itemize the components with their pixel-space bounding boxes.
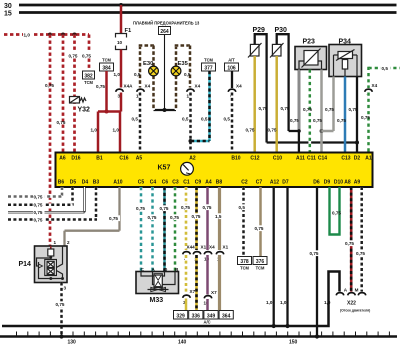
svg-text:A11: A11	[296, 156, 305, 162]
svg-text:Y32: Y32	[78, 107, 91, 114]
connector X4 pin 11	[186, 84, 201, 99]
svg-text:0,75: 0,75	[45, 83, 54, 88]
reference box 376 (TCM)	[253, 257, 267, 271]
node junction on D2 wire	[355, 141, 359, 145]
svg-text:0,5: 0,5	[182, 117, 189, 122]
wire black/white from K57 pin D5 to left	[8, 187, 74, 208]
sensor P23	[295, 39, 327, 70]
svg-text:A2: A2	[189, 156, 196, 162]
odometer module P14	[19, 240, 71, 283]
svg-text:C1: C1	[183, 180, 190, 186]
svg-text:264: 264	[160, 29, 169, 35]
ground bus with riser to connector X22	[2, 272, 340, 327]
svg-text:0,75: 0,75	[160, 206, 169, 211]
svg-text:C5: C5	[138, 180, 145, 186]
svg-text:E35: E35	[178, 61, 189, 67]
node lamp junction	[163, 108, 167, 112]
svg-text:D16: D16	[71, 156, 80, 162]
svg-text:0,75: 0,75	[310, 251, 319, 256]
wire teal/white from K57 pin C4 to M33 pin A	[147, 187, 159, 272]
wire tan from X1-1 into box 364	[218, 255, 221, 311]
svg-text:X4: X4	[145, 84, 151, 89]
svg-text:D9: D9	[324, 180, 331, 186]
wire yellow/black from X1-2 into box 336	[195, 255, 198, 311]
wire black stub from box 106 to connector X4 pin 6	[231, 71, 233, 88]
svg-text:376: 376	[256, 259, 265, 265]
svg-text:X4: X4	[372, 83, 378, 88]
svg-text:1,0: 1,0	[266, 300, 273, 305]
wire red distribution horizontal	[98, 110, 121, 113]
svg-text:A10: A10	[113, 180, 122, 186]
svg-text:0,75: 0,75	[356, 251, 365, 256]
connector X7 pin 3	[183, 289, 196, 305]
svg-text:D6: D6	[313, 180, 320, 186]
wire black from K57 pin D7 to ground bus	[280, 187, 290, 328]
node junction C	[73, 33, 77, 37]
wire yellow stub into box 329	[185, 299, 188, 311]
svg-text:1: 1	[54, 240, 57, 245]
reference box 336	[189, 311, 203, 320]
wire yellow from P30 to K57 pin C10	[268, 56, 277, 153]
svg-text:0,75: 0,75	[361, 115, 370, 120]
K57 bottom pin labels	[58, 180, 361, 186]
connector X7 pin 10	[203, 290, 217, 306]
wire teal/white from K57 pin C5 to M33 pin C	[136, 187, 148, 272]
reference box 382 (TCM)	[83, 71, 95, 85]
connector X4 pin 10	[204, 245, 216, 262]
svg-text:106: 106	[227, 66, 236, 72]
reference box 384 (TCM)	[100, 58, 114, 72]
node red junction at 384 stub	[105, 110, 109, 114]
wire red/white feeder horizontal	[4, 32, 89, 38]
svg-text:384: 384	[102, 66, 111, 72]
wire tan from K57 pin C7 to box 376	[254, 187, 266, 257]
gauge symbol in K57	[181, 162, 194, 175]
svg-text:0,75: 0,75	[181, 205, 190, 210]
svg-text:X7: X7	[190, 289, 196, 294]
svg-text:B1: B1	[96, 156, 103, 162]
wire black return of P30	[281, 45, 299, 131]
svg-text:0,75: 0,75	[136, 206, 145, 211]
reference box 378 (TCM)	[238, 257, 252, 271]
svg-text:D4: D4	[82, 180, 89, 186]
wire grey from P23 to K57 pin C14	[313, 70, 322, 154]
wire red drop to K57 pin B1	[91, 112, 99, 154]
svg-text:0,75: 0,75	[96, 84, 105, 89]
svg-text:C6: C6	[162, 180, 169, 186]
svg-text:E30: E30	[143, 61, 153, 67]
svg-text:D2: D2	[354, 156, 361, 162]
svg-text:ТСМ: ТСМ	[102, 58, 111, 63]
wire violet stub into box 349	[206, 299, 209, 311]
svg-text:30: 30	[4, 3, 12, 10]
connector X1 pin 1	[216, 245, 228, 262]
wire white from K57 pin D4 to left	[8, 187, 85, 215]
svg-text:A4: A4	[205, 180, 212, 186]
svg-text:M: M	[355, 287, 359, 292]
svg-text:336: 336	[192, 313, 201, 319]
svg-text:0,5: 0,5	[382, 66, 389, 71]
wire thin black from box 264 to lamp junction	[164, 35, 166, 111]
svg-text:P14: P14	[19, 261, 32, 268]
svg-text:150: 150	[289, 340, 298, 344]
svg-text:ТСМ: ТСМ	[256, 266, 265, 271]
wire red/white vertical to P14 pin 1	[45, 35, 54, 247]
wire black from P34 to K57 pin D2	[349, 77, 358, 154]
reference box 106 (A/T)	[225, 58, 239, 72]
node ground of P14 wire	[59, 334, 63, 338]
svg-text:1,0: 1,0	[280, 300, 287, 305]
wire yellow from P29 to K57 pin C12	[246, 56, 255, 153]
svg-text:C3: C3	[172, 180, 179, 186]
stepper motor M33	[136, 267, 179, 304]
wire black/white from X4-18 to K57 pin A5	[132, 93, 141, 154]
svg-text:ТСМ: ТСМ	[204, 58, 213, 63]
wire brown/white loop of lamp E35	[175, 46, 192, 111]
wire violet from K57 pin A4 to connector X4	[202, 187, 214, 250]
svg-text:C9: C9	[195, 180, 202, 186]
svg-text:364: 364	[222, 313, 231, 319]
wire dark teal from K57 pin C6 to M33 pin D	[159, 187, 171, 272]
svg-text:3: 3	[64, 286, 67, 291]
svg-text:378: 378	[240, 259, 249, 265]
svg-text:A/C: A/C	[204, 319, 211, 324]
svg-text:0,75: 0,75	[34, 195, 43, 200]
svg-text:1,0: 1,0	[24, 33, 31, 38]
svg-text:B10: B10	[231, 156, 240, 162]
svg-text:0,5: 0,5	[224, 117, 231, 122]
label X22 engine bay	[340, 301, 370, 313]
wire red feed below fuse F1	[114, 50, 122, 88]
wire violet from X4-10 to connector X7 pin 10	[206, 255, 209, 295]
svg-text:130: 130	[68, 340, 77, 344]
wire black/white from K57 pin B3 to left	[8, 187, 97, 223]
svg-text:X4: X4	[209, 245, 215, 250]
svg-text:0,75: 0,75	[303, 107, 312, 112]
svg-text:1,0: 1,0	[91, 128, 98, 133]
svg-text:A8: A8	[344, 180, 351, 186]
svg-text:1,5: 1,5	[215, 214, 222, 219]
svg-text:A1: A1	[365, 156, 372, 162]
wire green/white from X4-7 to K57 pin A1	[361, 93, 370, 154]
sensor P30	[270, 27, 289, 58]
svg-text:X4: X4	[236, 84, 242, 89]
svg-text:D5: D5	[70, 180, 77, 186]
wire red/black from K57 pin A8 to connector X22	[345, 187, 357, 292]
connector X1 pin 2	[193, 245, 206, 262]
ruler tick marks	[17, 332, 390, 337]
wire cyan/black from box 377	[191, 71, 210, 141]
svg-text:10: 10	[117, 40, 123, 45]
node junction on pin A2 wire	[189, 139, 193, 143]
svg-text:0,75: 0,75	[332, 211, 341, 216]
svg-text:B3: B3	[93, 180, 100, 186]
wire black from K57 pin A12 to ground bus	[266, 187, 276, 328]
wire white from P23 to K57 pin A11	[290, 70, 299, 132]
svg-text:0,75: 0,75	[148, 215, 157, 220]
svg-text:0,5: 0,5	[134, 72, 141, 77]
svg-text:ТСМ: ТСМ	[240, 266, 249, 271]
svg-text:2: 2	[67, 240, 70, 245]
svg-text:377: 377	[204, 66, 213, 72]
svg-text:(Отсек двигателя): (Отсек двигателя)	[340, 308, 370, 312]
node junction on C14 wire	[320, 129, 324, 133]
wire black/white from P14 pin 3 to ground rail	[55, 283, 67, 337]
svg-text:C7: C7	[256, 180, 263, 186]
svg-text:0,75: 0,75	[349, 107, 358, 112]
connector X4A pin 3	[116, 84, 133, 99]
svg-text:1,0: 1,0	[324, 300, 331, 305]
svg-text:0,5: 0,5	[132, 117, 139, 122]
svg-text:D7: D7	[282, 180, 289, 186]
svg-text:0,75: 0,75	[34, 210, 43, 215]
svg-text:C16: C16	[119, 156, 128, 162]
svg-text:C4: C4	[150, 180, 157, 186]
svg-text:B6: B6	[58, 180, 65, 186]
svg-text:D10: D10	[334, 180, 343, 186]
fuse F1 rating 10	[116, 28, 133, 50]
wire grey from K57 pin A10 to P14 pin 2	[65, 187, 121, 246]
svg-text:P30: P30	[275, 27, 288, 34]
wire red/white vertical to valve Y32 and K57 pin D16	[68, 35, 79, 154]
reference box 329	[174, 311, 188, 320]
reference box 364	[219, 311, 233, 320]
connector X22 middle pin	[348, 293, 356, 296]
wire black from junction to K57 pin A11	[298, 131, 300, 153]
wire black/white from X4-6 to K57 pin B10	[224, 93, 233, 154]
wire red/white vertical to K57 pin A6	[57, 35, 66, 154]
reference box 264	[159, 27, 171, 36]
connector X4 pin 18	[136, 84, 151, 99]
svg-text:0,75: 0,75	[337, 118, 346, 123]
wire black/white from X4-11 to K57 pin A2	[182, 93, 191, 154]
svg-text:0,5: 0,5	[201, 117, 208, 122]
wire black from K57 pin D6 to ground rail	[309, 187, 321, 339]
svg-text:ТСМ: ТСМ	[84, 80, 93, 85]
node junction on A11 wire	[297, 129, 301, 133]
wire grey from P34 joining C14 wire	[322, 77, 335, 132]
wire green/white from P23 to K57 pin C11	[303, 70, 312, 154]
svg-text:A6: A6	[59, 156, 66, 162]
svg-text:X22: X22	[347, 301, 356, 307]
wire blue from P34 to K57 pin C13	[337, 77, 346, 154]
reference box 349	[204, 311, 219, 325]
reference box 377 (TCM)	[202, 58, 216, 72]
solenoid valve Y32	[70, 97, 91, 114]
wire lamp bridge horizontal	[154, 109, 177, 111]
svg-text:0,75: 0,75	[290, 118, 299, 123]
svg-text:0,75: 0,75	[281, 106, 290, 111]
wire red from connector X4A to junction	[120, 93, 123, 112]
svg-text:X44: X44	[187, 245, 196, 250]
svg-text:1,0: 1,0	[113, 128, 120, 133]
svg-text:15: 15	[4, 11, 12, 18]
svg-text:F1: F1	[125, 28, 133, 34]
svg-text:B8: B8	[216, 180, 223, 186]
svg-text:A12: A12	[270, 180, 279, 186]
svg-text:C12: C12	[250, 156, 259, 162]
svg-text:0,75: 0,75	[34, 218, 43, 223]
wire black/white from K57 pin A9 to connector X22	[356, 187, 368, 292]
bus 15	[4, 11, 397, 18]
svg-text:1,0: 1,0	[114, 72, 121, 77]
wire main red feed from bus 30	[119, 3, 123, 33]
wire tan 1.5 from K57 pin B8 to connector X1	[215, 187, 224, 250]
svg-text:0,75: 0,75	[259, 106, 268, 111]
svg-text:ПЛАВКИЙ ПРЕДОХРАНИТЕЛЬ 13: ПЛАВКИЙ ПРЕДОХРАНИТЕЛЬ 13	[133, 21, 200, 26]
svg-text:0,5: 0,5	[184, 72, 191, 77]
connector X22 pin A	[336, 287, 348, 295]
wire black return of P29	[259, 45, 358, 143]
svg-text:X1: X1	[201, 245, 207, 250]
svg-text:0,75: 0,75	[255, 226, 264, 231]
instrument cluster K57	[56, 153, 373, 188]
node junction B	[61, 33, 65, 37]
fuel sender P34	[329, 39, 362, 77]
svg-text:0,75: 0,75	[82, 54, 91, 59]
svg-text:0,75: 0,75	[170, 215, 179, 220]
svg-text:0,75: 0,75	[192, 214, 201, 219]
svg-text:382: 382	[84, 74, 93, 80]
svg-text:0,75: 0,75	[203, 205, 212, 210]
wire red/white stub to reference 382	[82, 35, 93, 72]
connector X22 pin M	[355, 287, 366, 295]
svg-text:X1: X1	[223, 245, 229, 250]
wire green/white from K57 pin C3 to M33 pin B	[170, 187, 182, 272]
svg-text:C11: C11	[307, 156, 316, 162]
wire brown/white loop of lamp E30	[134, 46, 155, 111]
svg-text:0,75: 0,75	[34, 203, 43, 208]
svg-text:C10: C10	[273, 156, 282, 162]
connector X44 pin 4	[183, 245, 195, 262]
svg-text:P23: P23	[303, 39, 316, 46]
svg-text:329: 329	[176, 313, 185, 319]
svg-text:M33: M33	[150, 297, 164, 304]
svg-text:K57: K57	[158, 165, 171, 172]
svg-text:0,75: 0,75	[109, 216, 118, 221]
svg-text:X4: X4	[195, 84, 201, 89]
wire yellow from X44-4 to connector X7 pin 3	[185, 255, 188, 294]
wire green loop K57 pin D9 to pin D10	[330, 187, 342, 235]
svg-text:0,5: 0,5	[239, 205, 246, 210]
svg-text:A9: A9	[354, 180, 361, 186]
svg-text:P29: P29	[253, 27, 266, 34]
node junction A	[48, 33, 52, 37]
svg-text:0,75: 0,75	[57, 120, 66, 125]
svg-text:C13: C13	[341, 156, 350, 162]
wire red stub from box 384 to junction	[96, 71, 107, 112]
bus 30	[4, 3, 397, 10]
connector X4 pin 7	[365, 83, 378, 99]
wire black/white from K57 pin C2 to box 378	[238, 187, 247, 257]
svg-text:C2: C2	[241, 180, 248, 186]
K57 top pin labels	[59, 156, 372, 162]
svg-text:0,75: 0,75	[69, 54, 78, 59]
current track ruler line	[0, 335, 397, 337]
svg-text:C14: C14	[318, 156, 327, 162]
wire yellow/white from K57 pin C1 to connector X44	[181, 187, 193, 250]
svg-text:0,75: 0,75	[345, 241, 354, 246]
svg-text:140: 140	[178, 340, 187, 344]
wire red drop to K57 pin C16	[113, 112, 121, 154]
svg-text:0,75: 0,75	[268, 128, 277, 133]
svg-text:A/T: A/T	[228, 58, 235, 63]
wire green/white feed at right edge	[369, 65, 400, 88]
svg-text:0,75: 0,75	[325, 107, 334, 112]
svg-text:0,75: 0,75	[313, 118, 322, 123]
svg-text:X4A: X4A	[124, 84, 134, 89]
svg-text:X7: X7	[211, 290, 217, 295]
connector X4 pin 6	[228, 84, 242, 99]
sensor P29	[248, 27, 267, 58]
svg-text:0,75: 0,75	[56, 302, 65, 307]
wire yellow/black from K57 pin C9 to connector X1	[191, 187, 203, 250]
wire grey/white from K57 pin B6 to left	[8, 187, 63, 200]
svg-text:0,75: 0,75	[246, 128, 255, 133]
svg-text:A5: A5	[136, 156, 143, 162]
lamp E35	[171, 61, 188, 76]
lamp E30	[143, 61, 158, 76]
